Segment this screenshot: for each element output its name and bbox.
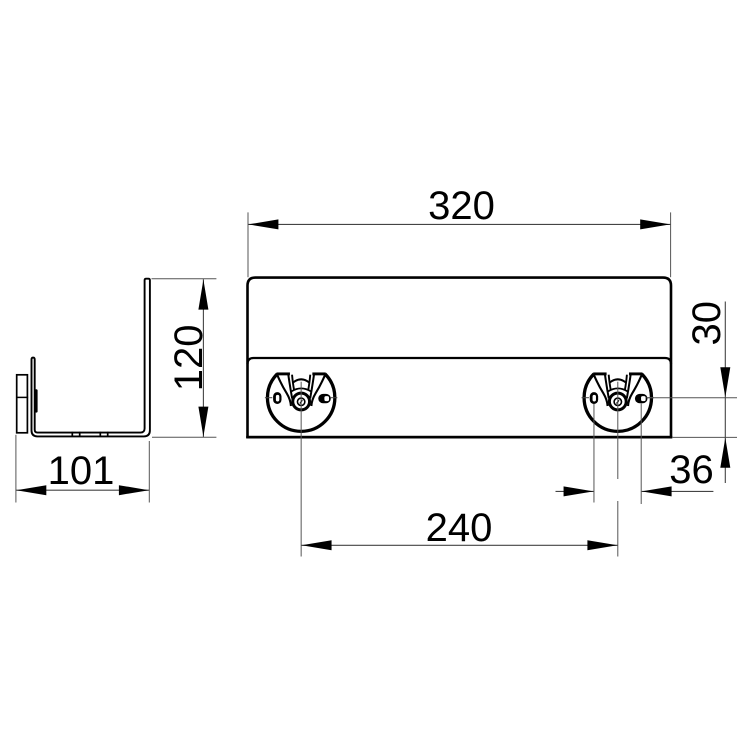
arrow pointing right xyxy=(564,486,594,496)
plate tick 1 xyxy=(71,432,73,437)
ext line left (bracket centerline) xyxy=(300,433,302,557)
dim tail right xyxy=(642,490,714,492)
arrow right xyxy=(119,485,149,495)
plate tick 3 xyxy=(99,432,101,437)
arrow down xyxy=(720,367,730,397)
arrow pointing left xyxy=(642,486,672,496)
ext line right xyxy=(148,441,150,503)
arrow left xyxy=(248,219,278,229)
dim line xyxy=(202,279,204,437)
dim line xyxy=(16,489,149,491)
ext line bottom xyxy=(152,436,216,438)
profile sheet outline (hook strap, bottom plate, front riser) xyxy=(32,279,150,437)
ext line right xyxy=(670,212,672,277)
arrow left xyxy=(302,540,332,550)
arrow right xyxy=(640,219,670,229)
ext line top xyxy=(152,278,217,280)
ext line left xyxy=(15,435,17,503)
arrow up xyxy=(720,438,730,468)
dim line xyxy=(248,223,671,225)
arrow left xyxy=(16,485,46,495)
ext line right slot xyxy=(640,404,642,505)
svg-text:101: 101 xyxy=(48,449,115,493)
arrow right xyxy=(587,540,617,550)
shelf divider edge xyxy=(248,358,672,364)
plate tick 4 xyxy=(107,432,109,437)
svg-text:240: 240 xyxy=(426,506,493,550)
svg-text:36: 36 xyxy=(669,448,714,492)
ext line left xyxy=(247,212,249,277)
svg-text:120: 120 xyxy=(167,325,211,392)
svg-text:320: 320 xyxy=(428,184,495,228)
ext line left slot xyxy=(593,404,595,503)
dim line xyxy=(724,302,726,484)
right mounting bracket xyxy=(582,374,654,433)
arrow up xyxy=(198,280,208,310)
ext line right upper segment xyxy=(617,433,619,479)
leader from slot centerline xyxy=(647,397,737,399)
left mounting bracket xyxy=(265,374,337,433)
plate tick 2 xyxy=(79,432,81,437)
svg-text:30: 30 xyxy=(685,301,729,346)
arrow down xyxy=(198,407,208,437)
dim line xyxy=(301,544,618,546)
shelf body outline xyxy=(248,278,672,438)
ext line right lower segment xyxy=(617,501,619,557)
boss seen from side (black bar) xyxy=(35,389,38,412)
wall plate divider xyxy=(16,396,28,398)
bottom edge (redrawn over) xyxy=(246,436,672,439)
dim tail left xyxy=(556,490,594,492)
leader from bottom edge xyxy=(672,436,737,438)
wall plate xyxy=(17,375,28,433)
